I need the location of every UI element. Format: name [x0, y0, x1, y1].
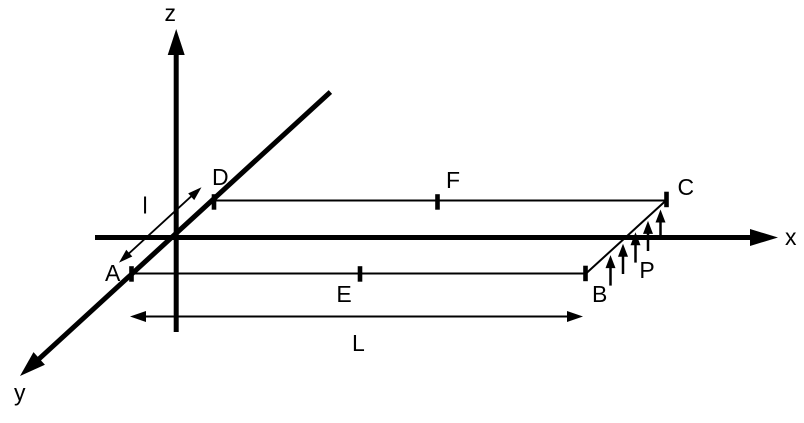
y axis	[20, 92, 330, 376]
point A tick	[129, 266, 134, 282]
load arrow P4	[643, 221, 653, 251]
edge A-B	[132, 273, 586, 275]
svg-text:P: P	[639, 257, 654, 283]
point F tick	[435, 194, 440, 210]
svg-text:l: l	[143, 193, 148, 219]
svg-text:z: z	[165, 0, 177, 26]
svg-text:x: x	[785, 224, 797, 250]
x axis	[95, 229, 778, 246]
svg-text:D: D	[212, 164, 229, 190]
svg-text:A: A	[105, 260, 121, 286]
z axis	[168, 29, 185, 332]
dimension arrow L	[130, 311, 583, 322]
svg-text:F: F	[446, 167, 460, 193]
point E tick	[358, 266, 363, 282]
svg-text:y: y	[14, 380, 26, 406]
point C tick	[664, 192, 669, 208]
svg-text:E: E	[336, 281, 351, 307]
edge B-C	[586, 200, 667, 274]
load arrow P5	[656, 210, 666, 241]
dimension arrow l	[119, 187, 202, 262]
svg-text:C: C	[678, 174, 695, 200]
point B tick	[583, 266, 588, 282]
edge D-C	[214, 200, 667, 202]
load arrow P1	[606, 255, 616, 286]
load arrow P2	[618, 244, 628, 274]
load arrow P3	[631, 232, 641, 262]
point D tick	[212, 194, 217, 210]
svg-text:L: L	[352, 330, 365, 356]
svg-text:B: B	[592, 281, 607, 307]
